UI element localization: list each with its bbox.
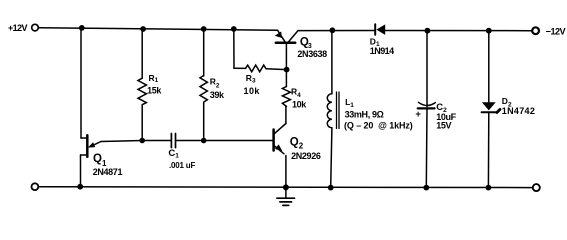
svg-text:(Q – 20 @ 1kHz): (Q – 20 @ 1kHz) xyxy=(344,120,413,130)
svg-text:10k: 10k xyxy=(292,100,307,110)
svg-text:39k: 39k xyxy=(210,90,225,100)
svg-text:.001 uF: .001 uF xyxy=(169,161,195,170)
svg-text:1N914: 1N914 xyxy=(370,46,394,56)
svg-text:−12V: −12V xyxy=(546,27,566,37)
svg-text:2N4871: 2N4871 xyxy=(93,167,123,177)
svg-text:15k: 15k xyxy=(147,86,162,96)
svg-text:1N4742: 1N4742 xyxy=(502,106,535,116)
svg-text:33mH, 9Ω: 33mH, 9Ω xyxy=(345,109,384,119)
svg-text:10k: 10k xyxy=(244,86,261,96)
svg-text:2N2926: 2N2926 xyxy=(291,151,321,161)
svg-text:+12V: +12V xyxy=(8,23,28,33)
svg-text:+: + xyxy=(415,109,421,120)
svg-text:15V: 15V xyxy=(436,120,451,130)
svg-text:2N3638: 2N3638 xyxy=(297,49,327,59)
